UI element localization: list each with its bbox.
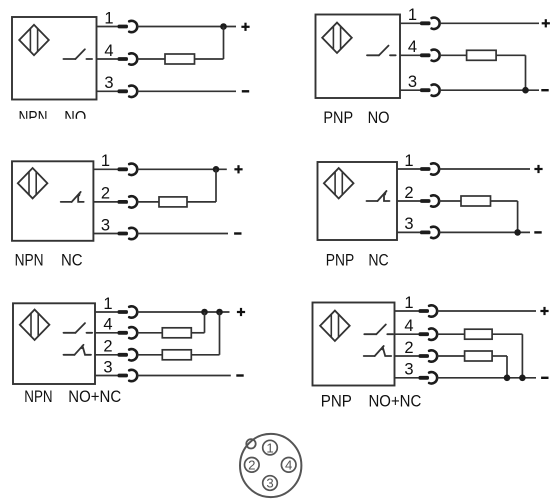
sensor body box (NPN NO+NC) [13, 303, 95, 384]
connector plug pin 3 (NPN NO): socket arc [129, 86, 137, 97]
wire PNP NC pin3 to - [439, 231, 530, 233]
connector plug pin 4 (PNP NO+NC): socket arc [429, 329, 437, 340]
resistor load PNP NC [461, 196, 491, 206]
svg-text:2: 2 [248, 458, 255, 473]
connector plug pin 4 (PNP NO): solid pin bar [420, 53, 431, 57]
wire PNP NC pin3 box to plug [397, 231, 420, 233]
wire PNP NO+NC NO-load to dropper [492, 333, 522, 335]
connector plug pin 2 (PNP NC): socket arc [431, 195, 439, 206]
svg-text:2: 2 [404, 339, 413, 357]
wire NPN NO+NC NC-load to riser [191, 354, 219, 356]
svg-text:1: 1 [404, 294, 413, 312]
wire NPN NO+NC pin4 to load [137, 332, 162, 334]
svg-text:PNP: PNP [323, 108, 353, 127]
wire PNP NO pin4 to load [440, 54, 467, 56]
wire PNP NO+NC pin2 box to plug [395, 355, 419, 357]
sensor logo diamond (NPN NO) [19, 25, 49, 55]
sensor logo diamond (PNP NO) [322, 23, 352, 53]
sensor body box (PNP NC) [318, 162, 398, 240]
resistor load PNP NO+NC NO-load [465, 329, 493, 339]
wire PNP NO pin1 box to plug [400, 22, 420, 24]
connector plug pin 3 (NPN NO+NC): socket arc [129, 370, 137, 381]
supply terminal + (PNP NO+NC) [540, 307, 548, 315]
connector plug pin 3 (NPN NC): solid pin bar [118, 232, 129, 236]
svg-text:1: 1 [101, 152, 110, 170]
caption label PNP NO+NC [321, 392, 422, 411]
resistor load PNP NO+NC NC-load [465, 351, 493, 361]
supply terminal + (PNP NC) [534, 165, 542, 173]
switch contact NC (NPN NC) [61, 192, 84, 202]
svg-text:1: 1 [266, 440, 273, 455]
connector plug pin 1 (NPN NO+NC): socket arc [129, 306, 137, 317]
junction dot PNP NO+NC pin3/NC node [504, 375, 511, 382]
connector plug pin 2 (PNP NO+NC): socket arc [429, 350, 437, 361]
caption label NPN NO+NC [24, 387, 121, 406]
connector plug pin 1 (PNP NO+NC): socket arc [429, 305, 437, 316]
wire NPN NC riser to pin1 node [215, 169, 217, 202]
svg-text:2: 2 [103, 338, 112, 356]
wire NPN NO+NC NO-load to riser [191, 332, 204, 334]
svg-text:4: 4 [408, 38, 417, 56]
svg-text:NPN: NPN [15, 251, 44, 270]
connector plug pin 3 (NPN NO+NC): solid pin bar [118, 374, 129, 378]
sensor body box (PNP NO) [316, 15, 401, 99]
junction dot NPN NC pin1/load node [213, 166, 220, 173]
caption label PNP NC [326, 251, 389, 270]
wire NPN NO+NC pin1 to + [137, 311, 229, 313]
wire NPN NO pin3 to - [137, 90, 236, 92]
wire PNP NC pin2 to load [439, 200, 461, 202]
connector plug pin 3 (PNP NO): socket arc [432, 85, 440, 96]
wire PNP NO+NC pin3 to - [437, 377, 536, 379]
connector plug pin 1 (NPN NC): socket arc [129, 164, 137, 175]
connector plug pin 2 (PNP NC): solid pin bar [420, 199, 431, 203]
wire NPN NO+NC riser to pin1 first node [204, 312, 206, 333]
connector plug pin 2 (NPN NC): solid pin bar [118, 200, 129, 204]
svg-text:3: 3 [101, 216, 110, 234]
wire PNP NO+NC pin2 to load [437, 355, 465, 357]
wire PNP NO pin3 box to plug [400, 89, 420, 91]
switch contact NC (PNP NC) [367, 191, 390, 201]
wire PNP NO pin1 to + [440, 22, 539, 24]
sensor logo diamond (NPN NO+NC) [20, 310, 50, 340]
switch contact NO (PNP NO+NC) [364, 325, 393, 335]
connector plug pin 3 (NPN NC): socket arc [129, 228, 137, 239]
wire NPN NC pin2 box to plug [93, 201, 117, 203]
svg-text:NC: NC [368, 251, 388, 270]
connector plug pin 4 (NPN NO): socket arc [129, 53, 137, 64]
connector plug pin 1 (NPN NC): solid pin bar [118, 167, 129, 171]
svg-text:4: 4 [404, 317, 413, 335]
sensor logo diamond (NPN NC) [18, 168, 48, 198]
junction dot NPN NO+NC pin1/NO-load node [201, 309, 208, 316]
wire NPN NO+NC pin2 box to plug [95, 354, 118, 356]
wire NPN NO+NC pin3 to - [137, 375, 231, 377]
connector plug pin 2 (NPN NO+NC): solid pin bar [118, 353, 129, 357]
resistor load NPN NO [165, 54, 195, 64]
wire NPN NO+NC pin2 to load [137, 354, 162, 356]
wire NPN NC pin3 box to plug [93, 233, 117, 235]
wire NPN NC pin3 to - [137, 233, 228, 235]
svg-text:4: 4 [285, 458, 292, 473]
caption label NPN NO [19, 108, 87, 127]
svg-text:3: 3 [404, 361, 413, 379]
supply terminal + (NPN NO) [241, 23, 249, 31]
svg-text:4: 4 [104, 42, 113, 60]
connector plug pin 3 (PNP NO+NC): socket arc [429, 372, 437, 383]
connector pin 2 circle [245, 458, 260, 473]
wire NPN NO pin4 box to plug [97, 58, 118, 60]
wire NPN NO+NC riser to pin1 second node [219, 312, 221, 355]
switch contact NO (NPN NO) [63, 49, 92, 59]
wire PNP NO pin4 box to plug [400, 54, 420, 56]
supply terminal - (NPN NO) [242, 90, 249, 92]
wire NPN NO pin4 to load [137, 58, 165, 60]
supply terminal - (PNP NC) [534, 231, 541, 233]
supply terminal - (NPN NC) [234, 232, 241, 234]
caption label PNP NO [323, 108, 389, 127]
sensor logo diamond (PNP NC) [324, 168, 354, 198]
wire NPN NC pin1 to + [137, 168, 227, 170]
wire PNP NO+NC dropper to pin3 first node [506, 356, 508, 378]
wire PNP NO+NC pin1 box to plug [395, 310, 419, 312]
sensor logo diamond (PNP NO+NC) [320, 311, 350, 341]
wire PNP NC pin1 box to plug [397, 168, 420, 170]
wire PNP NO+NC pin1 to + [437, 310, 536, 312]
wire NPN NO pin3 box to plug [97, 90, 118, 92]
switch contact NO (PNP NO) [367, 46, 396, 56]
connector plug pin 4 (NPN NO+NC): solid pin bar [118, 331, 129, 335]
svg-text:PNP: PNP [321, 392, 352, 411]
wire PNP NO+NC dropper to pin3 second node [521, 334, 523, 378]
connector plug pin 1 (NPN NO): socket arc [129, 21, 137, 32]
wire PNP NO load to dropper [496, 54, 525, 56]
svg-text:2: 2 [101, 185, 110, 203]
resistor load PNP NO [467, 50, 497, 60]
connector plug pin 3 (PNP NO): solid pin bar [420, 88, 431, 92]
junction dot PNP NO pin3/load node [522, 87, 529, 94]
junction dot NPN NO pin1/load node [220, 23, 227, 30]
wire NPN NO pin1 to + [137, 26, 236, 28]
supply terminal - (PNP NO) [541, 89, 548, 91]
wire PNP NO+NC NC-load to dropper [492, 355, 507, 357]
connector pin 3 circle [263, 476, 278, 491]
svg-text:1: 1 [404, 152, 413, 170]
white crop over clipped caption (NPN NO) [8, 119, 98, 129]
supply terminal - (NPN NO+NC) [236, 374, 243, 376]
svg-text:PNP: PNP [326, 251, 354, 270]
supply terminal + (NPN NC) [234, 165, 242, 173]
wire NPN NO+NC pin4 box to plug [95, 332, 118, 334]
supply terminal + (NPN NO+NC) [237, 308, 245, 316]
connector plug pin 1 (NPN NO+NC): solid pin bar [118, 310, 129, 314]
connector plug pin 4 (NPN NO+NC): socket arc [129, 327, 137, 338]
svg-text:3: 3 [408, 73, 417, 91]
connector plug pin 2 (PNP NO+NC): solid pin bar [419, 354, 430, 358]
connector plug pin 3 (PNP NC): solid pin bar [420, 231, 431, 235]
connector plug pin 1 (PNP NO): socket arc [432, 18, 440, 29]
wire NPN NO+NC pin1 box to plug [95, 311, 118, 313]
svg-text:1: 1 [408, 6, 417, 24]
connector plug pin 2 (NPN NC): socket arc [129, 196, 137, 207]
svg-text:NC: NC [61, 251, 83, 270]
svg-text:2: 2 [404, 184, 413, 202]
svg-text:NO+NC: NO+NC [68, 387, 121, 406]
connector pin 1 circle [263, 440, 278, 455]
wire PNP NC load to dropper [491, 200, 518, 202]
wire NPN NO pin1 box to plug [97, 26, 118, 28]
caption label NPN NC [15, 251, 83, 270]
resistor load NPN NO+NC NO-load [162, 328, 191, 338]
wire PNP NC pin1 to + [439, 168, 530, 170]
connector plug pin 1 (PNP NO): solid pin bar [420, 21, 431, 25]
junction dot NPN NO+NC pin1/NC-load node [216, 309, 223, 316]
switch contact NO (NPN NO+NC) [64, 323, 93, 333]
sensor body box (NPN NO) [12, 17, 97, 100]
svg-text:NO: NO [368, 108, 390, 127]
svg-text:4: 4 [103, 316, 112, 334]
wire PNP NO pin3 to - [440, 89, 539, 91]
connector plug pin 4 (NPN NO): solid pin bar [118, 57, 129, 61]
wire NPN NC pin2 to load [137, 201, 159, 203]
connector pin 4 circle [281, 458, 296, 473]
connector plug pin 2 (NPN NO+NC): socket arc [129, 349, 137, 360]
wire PNP NO+NC pin3 box to plug [395, 377, 419, 379]
svg-text:3: 3 [103, 358, 112, 376]
connector plug pin 1 (NPN NO): solid pin bar [118, 25, 129, 29]
svg-text:3: 3 [266, 476, 273, 491]
svg-text:1: 1 [103, 295, 112, 313]
resistor load NPN NO+NC NC-load [162, 350, 191, 360]
connector plug pin 3 (PNP NC): socket arc [431, 227, 439, 238]
sensor body box (PNP NO+NC) [313, 303, 395, 386]
M12 connector face outline circle [240, 434, 301, 497]
connector keyway notch circle [246, 439, 255, 448]
connector plug pin 1 (PNP NO+NC): solid pin bar [419, 309, 430, 313]
wire NPN NC pin1 box to plug [93, 168, 117, 170]
supply terminal - (PNP NO+NC) [541, 377, 548, 379]
junction dot PNP NO+NC pin3/NO node [519, 375, 526, 382]
wire NPN NO+NC pin3 box to plug [95, 375, 118, 377]
wire PNP NO+NC pin4 to load [437, 333, 465, 335]
wire PNP NC dropper to pin3 node [517, 201, 519, 232]
svg-text:3: 3 [404, 215, 413, 233]
svg-text:NO+NC: NO+NC [369, 392, 422, 411]
connector plug pin 1 (PNP NC): solid pin bar [420, 167, 431, 171]
wire NPN NO load to riser [195, 58, 224, 60]
connector plug pin 3 (NPN NO): solid pin bar [118, 89, 129, 93]
wire NPN NO riser to pin1 node [223, 27, 225, 60]
wire PNP NO dropper to pin3 node [525, 55, 527, 90]
svg-text:3: 3 [104, 74, 113, 92]
switch contact NC (NPN NO+NC) [64, 345, 92, 355]
wire NPN NC load to riser [187, 201, 216, 203]
wire PNP NO+NC pin4 box to plug [395, 333, 419, 335]
connector plug pin 4 (PNP NO+NC): solid pin bar [419, 332, 430, 336]
connector plug pin 3 (PNP NO+NC): solid pin bar [419, 376, 430, 380]
sensor body box (NPN NC) [12, 161, 93, 241]
wire PNP NC pin2 box to plug [397, 200, 420, 202]
supply terminal + (PNP NO) [542, 19, 550, 27]
connector plug pin 1 (PNP NC): socket arc [431, 163, 439, 174]
svg-text:1: 1 [104, 9, 113, 27]
connector plug pin 4 (PNP NO): socket arc [432, 50, 440, 61]
switch contact NC (PNP NO+NC) [364, 346, 392, 356]
svg-text:NPN: NPN [24, 387, 52, 406]
junction dot PNP NC pin3/load node [514, 229, 521, 236]
resistor load NPN NC [159, 197, 187, 207]
